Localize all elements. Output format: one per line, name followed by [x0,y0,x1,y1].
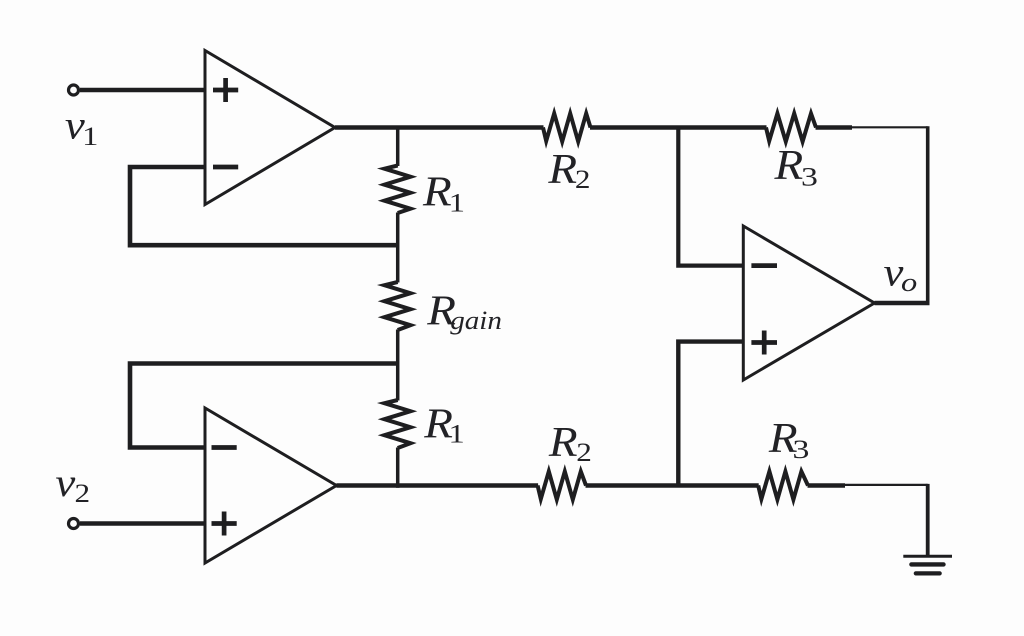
svg-text:1: 1 [449,190,465,218]
input terminal v1 [69,85,79,95]
svg-text:R: R [547,145,577,192]
svg-text:gain: gain [450,305,502,334]
resistor Rgain [385,282,411,330]
svg-text:2: 2 [75,479,91,508]
wire R2 to node B [590,125,767,130]
U2 minus sign [212,445,237,450]
op-amp U2 [205,408,337,563]
wire node B down to U3 minus input [678,128,744,266]
wire R3 right lead [816,125,853,130]
wire R3 bottom right lead [808,483,846,488]
resistor R3 (top, feedback) [766,113,816,141]
U3 plus sign [751,331,777,355]
svg-text:R: R [773,141,803,188]
node A vertical stub [396,128,400,167]
resistor R2 (bottom) [538,471,586,499]
wire node C up to U3 plus input [678,342,744,486]
svg-text:1: 1 [449,420,465,448]
wire U1 output to R2 [335,125,544,130]
wire R1 bottom to node C [396,448,400,488]
U3 minus sign [751,263,777,268]
svg-text:3: 3 [793,435,810,464]
U1 minus sign [213,165,238,170]
svg-text:3: 3 [801,162,818,191]
wire U2 feedback: node D, left, down, to minus input [130,364,399,448]
U1 plus sign [213,78,238,102]
input terminal v2 [69,519,79,529]
ground symbol [903,555,952,558]
wire U3 output [875,301,930,306]
wire R1 to Rgain [396,213,400,283]
op-amp U3 [743,226,874,380]
wire down to ground [926,484,930,556]
svg-text:v: v [55,461,75,505]
wire R2 bottom to node C [586,483,759,488]
svg-text:R: R [548,418,578,465]
resistor R3 (bottom) [758,471,808,499]
U2 plus sign [212,512,237,536]
wire v1 to op-amp U1 + input [80,88,207,93]
op-amp U1 [205,51,335,205]
wire U1 feedback: minus input, left, down, to node A [130,167,399,245]
wire Rgain to R1 bottom [396,330,400,401]
svg-text:2: 2 [576,438,592,467]
svg-text:2: 2 [575,166,591,195]
wire U2 output to R2 bottom [337,483,539,488]
svg-text:R: R [422,168,452,215]
resistor R1 (top) [385,166,411,214]
wire right feedback vertical down to output [926,126,930,304]
resistor R2 (top) [543,113,591,141]
svg-text:1: 1 [82,123,98,151]
wire v2 to op-amp U2 + input [80,521,207,526]
thin wire to right corner [851,126,928,128]
svg-text:o: o [901,269,917,297]
resistor R1 (bottom) [385,400,411,448]
thin wire to ground corner [844,484,928,486]
